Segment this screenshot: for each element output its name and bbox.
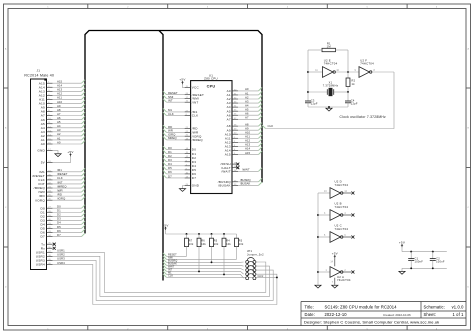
ground at J1 pin 17: [53, 151, 62, 157]
wire /RD J1 to bus: [53, 192, 85, 196]
wire A14 CPU to bus: [238, 147, 262, 151]
svg-text:CLK: CLK: [192, 114, 199, 118]
wire A0 CPU to bus: [238, 87, 262, 91]
wire D0 J1 to bus: [53, 205, 85, 209]
wire A13 CPU to bus: [238, 143, 262, 147]
ground at spare-gate input tie: [315, 285, 321, 288]
junction R6/INT: [198, 270, 200, 272]
op-amp U2 C 74HCT04 inverter (unused): [318, 224, 351, 243]
wire USR4 loop J1 to JP1: [53, 261, 277, 305]
no-connect Tx: [53, 243, 56, 246]
wire /M1 J1 to bus: [53, 168, 85, 172]
svg-text:Designer: Stephen C Cousins, S: Designer: Stephen C Cousins, Small Compu…: [304, 319, 439, 324]
svg-text:14: 14: [330, 261, 333, 263]
wire A8 J1 to bus: [53, 108, 85, 112]
+5V at CPU VCC pin 11: [179, 78, 185, 88]
svg-text:Z80 CPU: Z80 CPU: [204, 77, 218, 81]
wire A4 CPU to bus: [238, 103, 262, 107]
wire A14 J1 to bus: [53, 84, 85, 88]
wire /RESET J1 to bus: [53, 172, 85, 176]
wire A12 CPU to bus: [238, 139, 262, 143]
wire A7 J1 to bus: [53, 112, 85, 116]
svg-text:/WAIT: /WAIT: [242, 168, 250, 172]
wire D5 J1 to bus: [53, 225, 85, 229]
wire A15 J1 to bus: [53, 80, 85, 84]
no-connect U2A output: [351, 271, 354, 274]
wire A3 CPU to bus: [238, 99, 262, 103]
bus CPU-side vertical: [159, 31, 163, 281]
resistor R2: [346, 78, 350, 92]
svg-text:10k: 10k: [226, 243, 231, 246]
capacitor C4 22pF: [345, 92, 358, 107]
svg-text:74HCT04: 74HCT04: [335, 227, 349, 231]
svg-text:10k: 10k: [201, 243, 206, 246]
wire D0 CPU to bus: [163, 146, 185, 150]
wire D6 J1 to bus: [53, 229, 85, 233]
wire RD CPU to bus: [163, 125, 185, 129]
ground at decoupling rail: [399, 268, 405, 274]
wire D4 J1 to bus: [53, 221, 85, 225]
svg-text:A15: A15: [245, 151, 251, 155]
svg-text:1M: 1M: [327, 45, 332, 49]
wire BUSRQ CPU to bus: [238, 178, 262, 182]
svg-text:/MREQ: /MREQ: [192, 138, 204, 142]
wire A6 J1 to bus: [53, 116, 85, 120]
svg-text:2022-12-10: 2022-12-10: [325, 312, 348, 317]
op-amp U2A 74HCT04 inverter (unused, power pins): [318, 258, 351, 285]
svg-text:74HCT04: 74HCT04: [335, 205, 349, 209]
wire M1 bus to JP1 area: [163, 271, 244, 279]
wire A5 J1 to bus: [53, 120, 85, 124]
svg-text:B: B: [5, 128, 7, 130]
svg-text:Clock oscillator 7.3728MHz: Clock oscillator 7.3728MHz: [340, 115, 387, 119]
svg-text:100nF: 100nF: [436, 260, 445, 264]
wire D4 CPU to bus: [163, 162, 185, 166]
+5V at pull-up rail: [162, 223, 168, 234]
svg-text:7.3728MHz: 7.3728MHz: [323, 84, 339, 88]
wire A10 CPU to bus: [238, 131, 262, 135]
resistor R4 10k pull-up: [222, 234, 231, 274]
wire oscillator feedback left: [307, 50, 309, 99]
svg-text:J1: J1: [37, 68, 41, 72]
wire A9 J1 to bus: [53, 104, 85, 108]
svg-text:Schematic:: Schematic:: [424, 305, 445, 310]
svg-text:Date:: Date:: [305, 312, 315, 317]
jumper JP1 Jumper_5x2: [246, 249, 264, 280]
svg-text:INT: INT: [168, 99, 173, 103]
svg-text:100nF: 100nF: [415, 260, 424, 264]
wire A8 CPU to bus: [238, 122, 262, 126]
wire A13 J1 to bus: [53, 88, 85, 92]
svg-text:USR4: USR4: [57, 261, 65, 265]
junction R5/BUSRQ: [211, 261, 213, 263]
wire A12 J1 to bus: [53, 92, 85, 96]
svg-text:A0: A0: [57, 140, 61, 144]
wire USR3 loop J1 to JP1: [53, 257, 274, 301]
op-amp U2F 74HCT04 inverter: [355, 59, 395, 78]
op-amp U2 B 74HCT04 inverter (unused): [318, 202, 351, 221]
+5V at U2A pin 14: [332, 252, 338, 259]
wire D6 CPU to bus: [163, 170, 185, 174]
wire A10 J1 to bus: [53, 100, 85, 104]
svg-text:+5V: +5V: [399, 241, 405, 245]
svg-text:CLK: CLK: [268, 124, 274, 128]
svg-text:74HCT04: 74HCT04: [335, 183, 349, 187]
svg-text:C: C: [467, 207, 469, 209]
svg-text:A7: A7: [245, 116, 249, 120]
svg-text:+5V: +5V: [162, 223, 168, 227]
wire A1 CPU to bus: [238, 91, 262, 95]
no-connect U2 D output: [351, 192, 354, 195]
svg-text:D7: D7: [168, 174, 172, 178]
svg-text:A: A: [5, 48, 7, 51]
wire spare-gate input tie: [317, 193, 319, 285]
svg-text:v1.0.0: v1.0.0: [452, 305, 464, 310]
wire M1 CPU to bus: [163, 108, 185, 112]
wire A11 CPU to bus: [238, 135, 262, 139]
svg-text:74HCT04: 74HCT04: [360, 62, 374, 66]
svg-text:A: A: [468, 48, 470, 51]
svg-text:GND: GND: [37, 149, 45, 153]
wire D1 J1 to bus: [53, 209, 85, 213]
svg-text:74HCT04: 74HCT04: [337, 278, 351, 282]
wire BUSAK bus to JP1 area: [163, 262, 244, 266]
svg-text:A15: A15: [225, 153, 231, 157]
wire WAIT bus to JP1 area: [163, 265, 244, 270]
+5V at decoupling rail: [399, 241, 405, 252]
wire USR2 loop J1 to JP1: [53, 253, 270, 297]
wire CLK J1 to bus: [53, 176, 85, 180]
no-connect CPU /HALT: [236, 166, 239, 169]
wire CLK CPU to bus: [163, 112, 185, 116]
svg-text:+5V: +5V: [67, 150, 73, 154]
svg-text:/INT: /INT: [192, 100, 199, 104]
svg-text:/BUSAK: /BUSAK: [218, 184, 231, 188]
wire /IORQ J1 to bus: [53, 196, 85, 200]
wire NMI bus to JP1 area: [163, 256, 237, 260]
resistor R5 10k pull-up: [210, 234, 219, 262]
wire oscillator output node: [347, 50, 349, 78]
svg-text:A7: A7: [227, 117, 231, 121]
svg-text:RC2014 Male 40: RC2014 Male 40: [24, 74, 54, 78]
svg-text:CLK: CLK: [168, 274, 173, 278]
capacitor C2 100nF: [430, 252, 445, 269]
svg-text:1 of 1: 1 of 1: [453, 312, 465, 317]
svg-text:1k: 1k: [352, 82, 356, 86]
no-connect U2 C output: [351, 236, 354, 239]
+5V at J1 pin 18: [53, 150, 74, 163]
no-connect U2 B output: [351, 214, 354, 217]
wire D3 CPU to bus: [163, 158, 185, 162]
oscillator caption text: [340, 115, 387, 119]
wire D7 J1 to bus: [53, 233, 85, 237]
svg-text:D: D: [467, 287, 469, 289]
wire WAIT CPU to bus: [238, 168, 262, 172]
resistor R6 10k pull-up: [197, 234, 206, 271]
svg-text:D7: D7: [57, 233, 61, 237]
svg-text:+5V: +5V: [179, 78, 185, 82]
wire WR CPU to bus: [163, 129, 185, 133]
svg-text:10k: 10k: [214, 243, 219, 246]
capacitor C3 22pF: [305, 99, 318, 108]
wire A5 CPU to bus: [238, 107, 262, 111]
R1 value 1M: [327, 42, 332, 49]
wire INT bus to JP1 area: [163, 268, 244, 274]
R2 value 1k: [352, 79, 356, 86]
wire CLK bus to oscillator output: [262, 72, 394, 129]
wire BUSRQ bus to JP1 area: [163, 259, 244, 263]
svg-text:Jumper_5x2: Jumper_5x2: [247, 252, 264, 256]
svg-text:Title:: Title:: [305, 305, 314, 310]
resistor R7 10k pull-up: [185, 234, 194, 256]
wire decoupling ground rail: [402, 267, 447, 269]
wire RESET CPU to bus: [163, 91, 185, 95]
title block: [301, 302, 466, 326]
wire /INT J1 to bus: [53, 180, 85, 184]
wire pull-up +5V rail: [166, 233, 237, 235]
svg-text:CLK2: CLK2: [258, 276, 264, 278]
wire A11 J1 to bus: [53, 96, 85, 100]
svg-text:10k: 10k: [239, 243, 244, 246]
svg-text:USR4: USR4: [36, 263, 45, 267]
svg-text:Created: 2022-10-06: Created: 2022-10-06: [383, 313, 411, 317]
capacitor C1 100nF: [408, 252, 423, 269]
svg-text:GND: GND: [192, 184, 200, 188]
wire A7 CPU to bus: [238, 116, 262, 120]
junction CLK/USR4 path: [276, 276, 278, 278]
cpu U1 Z80 CPU: [185, 73, 238, 193]
svg-text:Sheet:: Sheet:: [424, 312, 437, 317]
wire A1 J1 to bus: [53, 136, 85, 140]
wire CLK bus to JP1 area: [163, 274, 277, 278]
svg-text:7: 7: [332, 282, 334, 284]
wire D2 CPU to bus: [163, 154, 185, 158]
ground at oscillator: [308, 106, 348, 111]
JP1 CLK2 label: [258, 276, 264, 278]
wire A15 CPU to bus: [238, 151, 262, 155]
wire IORQ CPU to bus: [163, 133, 185, 137]
wire /WR J1 to bus: [53, 188, 85, 192]
wire /MREQ J1 to bus: [53, 184, 85, 188]
wire D7 CPU to bus: [163, 174, 185, 178]
wire A2 J1 to bus: [53, 132, 85, 136]
wire A3 J1 to bus: [53, 128, 85, 132]
svg-text:22pF: 22pF: [351, 102, 358, 106]
crystal X1 7.3728MHz: [308, 80, 349, 95]
svg-text:D7: D7: [192, 176, 196, 180]
wire A9 CPU to bus: [238, 126, 262, 130]
connector J1 RC2014 Male 40: [24, 68, 54, 269]
wire D3 J1 to bus: [53, 217, 85, 221]
ground at CPU GND pin 29: [179, 186, 185, 192]
wire A4 J1 to bus: [53, 124, 85, 128]
svg-text:D7: D7: [41, 235, 45, 239]
wire INT CPU to bus: [163, 99, 185, 103]
svg-text:SC149: Z80 CPU module for RC20: SC149: Z80 CPU module for RC2014: [325, 305, 398, 310]
wire NMI CPU to bus: [163, 95, 185, 99]
svg-text:C: C: [5, 207, 7, 209]
svg-text:MREQ: MREQ: [168, 136, 177, 140]
svg-text:/BUSAK: /BUSAK: [240, 182, 250, 186]
op-amp U2E 74HCT04 inverter: [308, 59, 359, 78]
wire A0 J1 to bus: [53, 140, 85, 144]
svg-text:VCC: VCC: [192, 86, 200, 90]
wire RESET bus to JP1 area: [163, 253, 187, 257]
svg-text:B: B: [468, 128, 470, 130]
op-amp U2 D 74HCT04 inverter (unused): [318, 180, 351, 199]
svg-text:74HCT04: 74HCT04: [324, 62, 338, 66]
wire A6 CPU to bus: [238, 112, 262, 116]
wire D5 CPU to bus: [163, 166, 185, 170]
svg-text:/IORQ: /IORQ: [35, 198, 45, 202]
svg-text:10k: 10k: [189, 243, 194, 246]
svg-text:A0: A0: [41, 142, 45, 146]
wire decoupling +5V rail: [402, 251, 447, 253]
svg-text:22pF: 22pF: [311, 102, 318, 106]
svg-text:CLK: CLK: [168, 112, 174, 116]
svg-text:CPU: CPU: [207, 85, 216, 89]
svg-text:5V: 5V: [41, 161, 46, 165]
wire MREQ CPU to bus: [163, 136, 185, 140]
wire USR1 loop J1 to JP1: [53, 249, 266, 293]
ground at U2A pin 7: [332, 285, 338, 288]
no-connect CPU /RFSH: [236, 163, 239, 166]
junction R4/M1: [223, 273, 225, 275]
wire BUSAK CPU to bus: [238, 182, 262, 186]
svg-text:/IORQ: /IORQ: [57, 196, 66, 200]
wire D2 J1 to bus: [53, 213, 85, 217]
svg-text:/WAIT: /WAIT: [221, 169, 230, 173]
wire A2 CPU to bus: [238, 95, 262, 99]
svg-text:D: D: [5, 287, 7, 289]
svg-text:+5V: +5V: [332, 252, 338, 256]
wire D1 CPU to bus: [163, 150, 185, 154]
resistor R1: [308, 48, 348, 51]
resistor R3 10k pull-up: [235, 234, 244, 259]
no-connect Rx: [53, 247, 56, 250]
bus main address/data (left vertical + top horizontal): [85, 31, 262, 234]
